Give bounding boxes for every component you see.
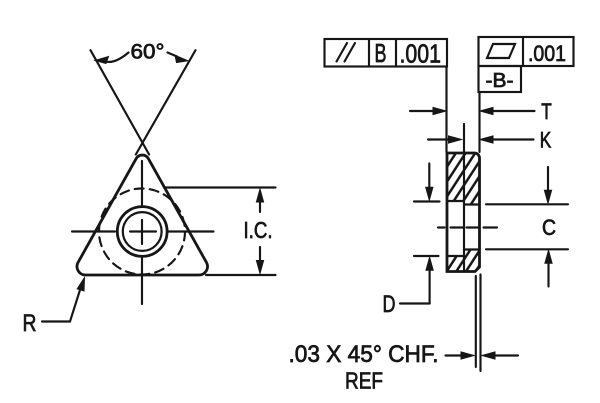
C extension line bottom	[486, 248, 568, 250]
dimension T left arrow	[410, 110, 443, 112]
chamfer extension line left	[475, 276, 477, 367]
svg-text:.03 X 45° CHF.: .03 X 45° CHF.	[289, 341, 439, 368]
60-degree angle left line	[91, 50, 150, 154]
section hatch bottom band	[447, 256, 464, 272]
I.C. dimension upper arrow	[256, 189, 263, 202]
centerline horizontal of hole	[72, 230, 214, 232]
svg-text:K: K	[540, 128, 552, 153]
feature control frame parallelism box	[325, 39, 448, 67]
bore edge left top	[447, 200, 464, 202]
arrowhead on right angle line	[175, 55, 188, 62]
svg-text:C: C	[542, 215, 556, 240]
hole inner circle	[123, 212, 162, 251]
svg-text:I.C.: I.C.	[244, 217, 273, 243]
section bore dividing line	[463, 153, 465, 272]
chamfer extension line right	[479, 275, 481, 372]
R leader with arrowhead	[42, 282, 83, 322]
dimension K right arrow	[483, 138, 534, 140]
bore edge right bottom	[464, 248, 480, 250]
inscribed circle (dashed)	[99, 189, 185, 275]
extension line bore step for K	[463, 124, 465, 152]
dimension T right arrow	[483, 110, 535, 112]
bore edge left bottom	[447, 255, 464, 257]
arrowhead on left angle line	[95, 57, 109, 64]
svg-text:60°: 60°	[131, 41, 165, 64]
I.C. extension line bottom	[206, 274, 276, 276]
D lower arrow with leader	[429, 266, 431, 304]
centerline vertical of hole	[141, 161, 143, 304]
D upper arrow	[428, 164, 430, 192]
extension line left face	[445, 67, 447, 153]
feature control frame flatness box	[479, 37, 574, 66]
hole centerline in section	[438, 226, 497, 228]
svg-text:R: R	[23, 310, 37, 337]
parallelism symbol	[337, 43, 356, 62]
I.C. dimension lower arrow	[256, 261, 263, 274]
D extension line bottom	[414, 255, 439, 257]
section hatch top band	[447, 153, 480, 272]
chamfer dimension left arrow	[446, 354, 466, 356]
60-degree angle right line	[136, 50, 196, 154]
svg-text:REF: REF	[345, 368, 383, 394]
datum box -B-	[479, 66, 522, 92]
svg-text:.001: .001	[400, 39, 442, 69]
bore edge right top	[464, 203, 480, 205]
svg-text:B: B	[375, 38, 387, 68]
chamfer dimension right arrow	[491, 354, 518, 356]
C dimension upper arrow	[547, 167, 549, 194]
I.C. extension line top	[164, 186, 276, 188]
leader line right of 60 label	[168, 53, 178, 57]
extension line right face	[478, 92, 480, 152]
dimension K left arrow	[428, 138, 458, 140]
hole outer circle	[117, 207, 167, 257]
flatness parallelogram symbol	[487, 44, 515, 58]
section outline	[447, 153, 480, 272]
C extension line top	[486, 203, 568, 205]
D extension line top	[414, 200, 440, 202]
svg-text:T: T	[541, 99, 552, 124]
insert triangle outline	[77, 155, 207, 275]
svg-text:-B-: -B-	[486, 70, 514, 92]
C dimension lower arrow	[547, 260, 549, 287]
leader arc left of 60 label	[106, 53, 129, 62]
svg-text:.001: .001	[528, 41, 566, 66]
svg-text:D: D	[383, 291, 396, 318]
